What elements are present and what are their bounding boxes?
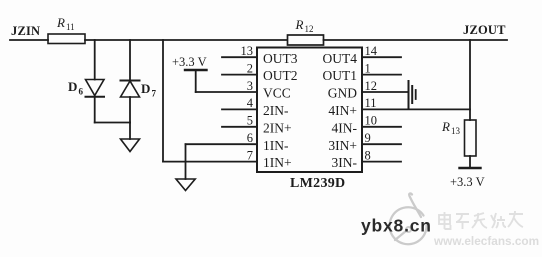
wire stub pin 10 (362, 126, 401, 128)
svg-text:OUT1: OUT1 (323, 68, 358, 83)
svg-text:8: 8 (365, 148, 371, 162)
wire pin 11 to R13 node (362, 108, 470, 110)
svg-text:+3.3 V: +3.3 V (172, 55, 207, 69)
ground (pin 12, sideways bars) (409, 81, 416, 108)
watermark mouse icon (390, 193, 427, 244)
svg-text:LM239D: LM239D (290, 176, 345, 191)
op-amp U1 LM239D body (257, 48, 362, 192)
pin labels U1 right (323, 51, 358, 170)
svg-text:1IN+: 1IN+ (263, 155, 292, 170)
svg-text:R: R (295, 17, 304, 32)
wire drop to pin 7 (162, 40, 164, 162)
svg-text:3IN-: 3IN- (332, 155, 358, 170)
svg-text:11: 11 (365, 96, 377, 110)
node JZOUT (463, 23, 506, 37)
svg-text:3: 3 (247, 79, 253, 93)
svg-text:D: D (68, 79, 77, 94)
svg-text:6: 6 (247, 131, 253, 145)
svg-text:4: 4 (247, 96, 254, 110)
svg-text:7: 7 (152, 89, 157, 99)
wire VCC pin 3 (196, 91, 257, 93)
svg-text:R: R (56, 15, 65, 30)
wire stem pin6 to ground (185, 144, 187, 179)
wire pin 12 GND (362, 91, 408, 93)
svg-text:14: 14 (365, 44, 378, 58)
wire stub pin 1 (362, 74, 401, 76)
svg-text:OUT2: OUT2 (263, 68, 298, 83)
wire stub pin 4 (222, 108, 257, 110)
wire R13 bottom lead (469, 156, 471, 168)
wire stem to ground (129, 123, 131, 140)
svg-text:12: 12 (365, 79, 378, 93)
svg-text:VCC: VCC (263, 86, 291, 101)
pin numbers left 13 2 3 4 5 6 7 (241, 44, 254, 162)
wire JZOUT drop to R13 (469, 40, 471, 120)
watermark text ybx8.cn (361, 216, 432, 236)
svg-text:ybx8.cn: ybx8.cn (361, 216, 432, 236)
svg-text:1IN-: 1IN- (263, 138, 289, 153)
svg-text:2: 2 (247, 61, 253, 75)
svg-text:+3.3 V: +3.3 V (450, 175, 485, 189)
wire stub pin 9 (362, 143, 401, 145)
resistor R12 (288, 17, 324, 45)
svg-text:6: 6 (79, 87, 84, 97)
wire pin 6 (1IN-) (186, 143, 258, 145)
watermark text www.elecfans.com (433, 234, 539, 248)
svg-text:GND: GND (328, 86, 357, 101)
svg-text:13: 13 (451, 126, 461, 136)
svg-text:12: 12 (305, 24, 314, 34)
ground (below D7) (121, 139, 140, 152)
svg-text:10: 10 (365, 114, 378, 128)
svg-text:5: 5 (247, 114, 253, 128)
ground (below pin 6) (176, 179, 195, 191)
wire to pin 7 (1IN+) (163, 161, 257, 163)
wire D6 bottom lead (94, 97, 96, 123)
node JZIN (11, 24, 40, 38)
diode D7 (121, 81, 157, 99)
svg-text:JZIN: JZIN (11, 24, 40, 38)
wire stub pin 2 (222, 74, 257, 76)
power +3.3V (right) bar (450, 168, 485, 189)
svg-text:2IN+: 2IN+ (263, 120, 292, 135)
resistor R13 (441, 119, 476, 156)
svg-text:www.elecfans.com: www.elecfans.com (433, 234, 539, 248)
wire R12 to JZOUT (324, 39, 508, 41)
diode D6 (68, 79, 104, 97)
wire D6-D7 bottom junction (95, 122, 130, 124)
svg-text:OUT4: OUT4 (323, 51, 358, 66)
svg-text:4IN+: 4IN+ (328, 103, 357, 118)
svg-text:7: 7 (247, 148, 253, 162)
svg-text:JZOUT: JZOUT (463, 23, 506, 37)
svg-text:9: 9 (365, 131, 371, 145)
svg-text:2IN-: 2IN- (263, 103, 289, 118)
wire stub pin 5 (222, 126, 257, 128)
wire stub pin 14 (362, 56, 401, 58)
wire D7 bottom lead (129, 97, 131, 123)
pin labels U1 left (263, 51, 298, 170)
resistor R11 (48, 15, 85, 44)
svg-text:11: 11 (66, 22, 75, 32)
svg-text:13: 13 (241, 44, 254, 58)
svg-text:1: 1 (365, 61, 371, 75)
svg-text:R: R (441, 119, 450, 134)
svg-text:4IN-: 4IN- (332, 120, 358, 135)
power +3.3V (left) (172, 55, 207, 92)
svg-text:OUT3: OUT3 (263, 51, 298, 66)
watermark 电子发烧友 (drawn strokes) (439, 211, 523, 229)
svg-text:D: D (141, 81, 150, 96)
pin numbers right 14 1 12 11 10 9 8 (365, 44, 378, 162)
wire drop to D7 (129, 40, 131, 80)
wire stub pin 13 (222, 56, 257, 58)
wire R11 to R12 (main node rail) (85, 39, 287, 41)
wire drop to D6 (94, 40, 96, 80)
wire stub pin 8 (362, 161, 401, 163)
svg-text:3IN+: 3IN+ (328, 138, 357, 153)
wire JZIN to R11 (10, 39, 48, 41)
